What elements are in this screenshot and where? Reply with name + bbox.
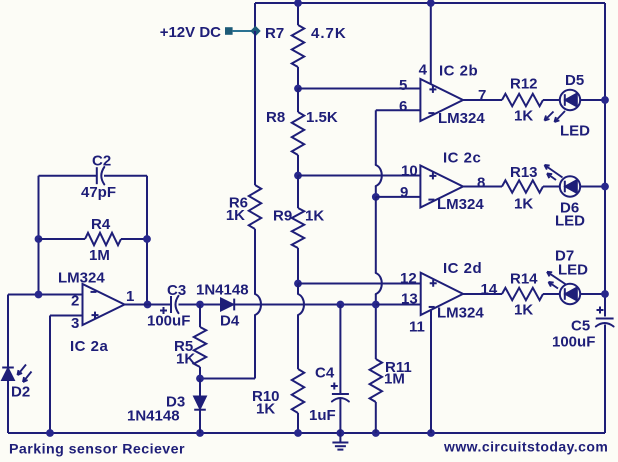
- resistor R12: [502, 94, 543, 106]
- wire hop over pin10 wire: [376, 165, 382, 186]
- wire LED D7 to rail: [580, 293, 605, 295]
- junction R8-R9 node: [294, 172, 302, 180]
- wire R6 upper lead: [254, 31, 256, 185]
- svg-text:R8: R8: [266, 109, 285, 126]
- LED D5 emission arrows: [555, 111, 566, 122]
- svg-text:1N4148: 1N4148: [196, 282, 249, 299]
- svg-text:1K: 1K: [256, 401, 275, 418]
- wire R9 to R10 with hop over signal: [297, 284, 299, 295]
- svg-text:C2: C2: [92, 153, 111, 170]
- svg-text:47pF: 47pF: [81, 184, 116, 201]
- svg-text:D2: D2: [11, 384, 30, 401]
- svg-text:LM324: LM324: [58, 270, 105, 287]
- svg-text:R9: R9: [273, 208, 292, 225]
- svg-text:1M: 1M: [384, 371, 405, 388]
- LED D7 emission arrows: [547, 272, 566, 285]
- svg-text:100uF: 100uF: [552, 334, 595, 351]
- op-amp U IC2d: [421, 273, 463, 315]
- svg-text:Parking sensor Reciever: Parking sensor Reciever: [9, 442, 185, 458]
- svg-text:1uF: 1uF: [309, 407, 336, 424]
- junction signal at C4: [337, 301, 345, 309]
- photodiode D2: [2, 367, 14, 369]
- wire pin12 threshold: [298, 283, 421, 285]
- junction top rail at R7: [294, 0, 302, 7]
- photodiode D2 light arrows: [18, 365, 27, 376]
- wire hop over pin12 wire: [376, 273, 382, 294]
- wire feedback left vertical: [38, 176, 40, 295]
- wire pin9 input: [376, 196, 421, 198]
- svg-text:1: 1: [126, 288, 134, 305]
- junction R9 bottom node: [294, 280, 302, 288]
- resistor R5: [199, 305, 201, 328]
- svg-text:R14: R14: [510, 271, 538, 288]
- svg-text:1K: 1K: [305, 208, 324, 225]
- wire +12V feed vertical: [254, 3, 256, 31]
- junction rail at D7: [601, 290, 609, 298]
- wire bottom ground rail: [8, 432, 605, 434]
- wire C3 to D4 node: [179, 304, 222, 306]
- svg-text:IC 2a: IC 2a: [70, 338, 109, 355]
- wire right rail lower segment: [604, 325, 606, 434]
- junction +12V node: [251, 27, 260, 36]
- svg-text:C4: C4: [315, 365, 335, 382]
- op-amp U IC2a: [83, 284, 125, 325]
- wire feedback right vertical: [146, 176, 148, 305]
- wire IC2d output: [463, 293, 502, 295]
- svg-text:10: 10: [401, 163, 418, 180]
- capacitor C3: [170, 296, 172, 313]
- LED D6: [560, 176, 580, 196]
- wire R6 lower lead with hop over signal: [254, 229, 256, 294]
- resistor R7: [297, 3, 299, 25]
- svg-text:R7: R7: [265, 25, 284, 42]
- op-amp U IC2b: [420, 79, 463, 121]
- svg-text:4: 4: [419, 62, 428, 79]
- svg-text:IC 2c: IC 2c: [443, 150, 481, 167]
- resistor R14: [502, 288, 543, 300]
- junction R7-R8 node: [294, 85, 302, 93]
- wire IC2a output to C3: [125, 304, 172, 306]
- junction feedback at pin2: [35, 291, 43, 299]
- svg-text:12: 12: [400, 270, 417, 287]
- svg-text:IC 2d: IC 2d: [443, 260, 482, 277]
- svg-text:+12V DC: +12V DC: [160, 24, 221, 41]
- wire right rail upper segment: [604, 3, 606, 317]
- +12V terminal square: [225, 27, 233, 35]
- junction signal at pin13: [372, 301, 380, 309]
- resistor R13: [502, 180, 543, 192]
- junction rail at D6: [601, 183, 609, 191]
- capacitor C5: [596, 318, 614, 320]
- svg-text:D4: D4: [220, 313, 240, 330]
- capacitor C2: [96, 167, 98, 184]
- junction R10 ground: [294, 429, 302, 437]
- svg-text:IC 2b: IC 2b: [439, 63, 478, 80]
- wire LED D6 to rail: [580, 186, 605, 188]
- resistor R8: [297, 89, 299, 113]
- junction feedback at output: [144, 301, 152, 309]
- wire IC2b output: [463, 99, 502, 101]
- svg-text:4.7K: 4.7K: [311, 25, 347, 42]
- junction top rail at pin4: [427, 0, 435, 7]
- svg-text:6: 6: [399, 98, 407, 115]
- svg-text:8: 8: [477, 175, 485, 192]
- svg-text:C5: C5: [571, 318, 590, 335]
- svg-text:2: 2: [71, 293, 79, 310]
- capacitor C4 with leads: [339, 305, 341, 395]
- resistor R10: [292, 369, 304, 413]
- ground symbol: [339, 433, 341, 442]
- diode D4: [221, 299, 233, 311]
- wire IC2c output: [463, 186, 502, 188]
- wire R13 to LED D6: [543, 186, 560, 188]
- svg-text:1N4148: 1N4148: [127, 408, 180, 425]
- junction R5-D3 node: [196, 375, 204, 383]
- LED D7: [560, 284, 580, 304]
- svg-text:5: 5: [399, 77, 407, 94]
- wire LED D5 to rail: [580, 99, 605, 101]
- svg-text:3: 3: [71, 315, 79, 332]
- wire pin3 input: [50, 315, 83, 317]
- svg-text:100uF: 100uF: [147, 313, 190, 330]
- svg-text:7: 7: [478, 87, 486, 104]
- wire to pin13 junction: [375, 294, 377, 305]
- svg-text:14: 14: [481, 281, 498, 298]
- junction R11 ground: [372, 429, 380, 437]
- wire pin13 input: [376, 304, 421, 306]
- junction feedback at R4 left: [35, 235, 43, 243]
- svg-text:9: 9: [400, 184, 408, 201]
- svg-text:1K: 1K: [176, 351, 195, 368]
- svg-text:LED: LED: [558, 262, 588, 279]
- wire pin6 net: [376, 109, 421, 111]
- wire R12 to LED D5: [543, 99, 560, 101]
- wire pin6-pin9 link: [375, 186, 377, 197]
- wire R4 row leads: [39, 238, 86, 240]
- wire pin9-pin13 link: [375, 197, 377, 273]
- svg-text:11: 11: [409, 319, 425, 336]
- svg-text:1M: 1M: [89, 247, 110, 264]
- svg-text:www.circuitstoday.com: www.circuitstoday.com: [443, 439, 608, 455]
- wire pin2 input: [8, 294, 83, 296]
- svg-text:13: 13: [401, 291, 418, 308]
- svg-text:D5: D5: [565, 72, 584, 89]
- wire C2 row: [39, 175, 97, 177]
- resistor R11 with leads: [375, 305, 377, 360]
- resistor R9: [297, 176, 299, 209]
- svg-text:C3: C3: [167, 282, 186, 299]
- wire signal D4 to pins: [234, 304, 376, 306]
- junction rail at D5: [601, 96, 609, 104]
- junction C3-R5-D4 node: [196, 301, 204, 309]
- svg-text:1K: 1K: [514, 302, 533, 319]
- wire pin5 threshold: [298, 88, 420, 90]
- junction pin3 ground: [46, 429, 54, 437]
- svg-text:LM324: LM324: [437, 305, 484, 322]
- LED D6 emission arrows: [545, 165, 563, 178]
- svg-text:1.5K: 1.5K: [306, 109, 338, 126]
- resistor R6: [249, 185, 261, 229]
- wire IC2b pin4 supply: [430, 3, 432, 84]
- svg-text:LM324: LM324: [437, 196, 484, 213]
- wire photodiode branch upper: [7, 295, 9, 368]
- wire IC2d pin11 ground lead: [430, 310, 432, 433]
- junction D3 ground: [196, 429, 204, 437]
- wire +12V teal lead: [233, 30, 252, 32]
- wire R14 to LED D7: [543, 293, 560, 295]
- svg-text:LM324: LM324: [438, 110, 485, 127]
- wire pin10 threshold: [298, 175, 420, 177]
- op-amp U IC2c: [420, 166, 463, 208]
- LED D5: [560, 90, 580, 110]
- diode D3: [199, 379, 201, 397]
- wire top +12V rail: [255, 2, 605, 4]
- svg-text:1K: 1K: [514, 108, 533, 125]
- svg-text:R4: R4: [91, 216, 111, 233]
- svg-text:LED: LED: [560, 123, 590, 140]
- wire R6 to R5/D3 node: [200, 378, 255, 380]
- junction signal at pin9: [372, 193, 380, 201]
- svg-text:LED: LED: [555, 213, 585, 230]
- junction IC2d pin11 ground: [427, 429, 435, 437]
- resistor R4: [85, 233, 121, 245]
- svg-text:1K: 1K: [514, 196, 533, 213]
- junction C4 ground: [337, 429, 345, 437]
- junction feedback at R4 right: [143, 235, 151, 243]
- svg-text:1K: 1K: [226, 207, 245, 224]
- svg-text:R12: R12: [510, 76, 538, 93]
- svg-text:R13: R13: [510, 164, 538, 181]
